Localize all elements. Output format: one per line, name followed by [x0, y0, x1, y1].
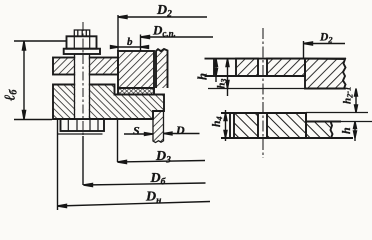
svg-text:S: S [133, 124, 140, 138]
dim l_b line [23, 41, 25, 120]
svg-text:Dн: Dн [145, 190, 161, 207]
bolt shaft hole clearance [75, 54, 89, 119]
dim h right bottom [354, 122, 356, 142]
dim l_b extension bottom [14, 119, 52, 121]
dim Dc.p. extension [140, 35, 142, 52]
dim D2 right [304, 43, 346, 45]
upper flange hub [118, 51, 154, 88]
dim D line right [164, 133, 200, 135]
bolt centerline [82, 22, 84, 150]
dim l_b extension top [14, 40, 67, 42]
dim Dc.p. line [141, 36, 214, 38]
dim Dn extension [57, 119, 59, 210]
svg-text:Dб: Dб [150, 171, 167, 188]
svg-text:D3: D3 [155, 149, 171, 166]
right view dimensions [215, 41, 358, 141]
svg-text:h2-1: h2-1 [342, 86, 355, 104]
gasket [118, 88, 154, 95]
right bottom flange step top edge [306, 121, 341, 123]
svg-text:Dс.п.: Dс.п. [152, 22, 176, 38]
right top flange block bottom edge extended [208, 88, 344, 90]
svg-text:h4: h4 [211, 116, 224, 127]
dimension lines left view [14, 15, 213, 210]
washer [64, 49, 100, 54]
right bottom flange top edge [221, 112, 306, 114]
dim h3 left [227, 59, 229, 96]
right bottom flange bottom edge [221, 137, 353, 139]
dim h4 left bottom [225, 110, 227, 141]
dim h2-1 right [355, 90, 357, 113]
dim b line [110, 46, 149, 48]
dim D3 extension [117, 120, 119, 162]
dim Db extension [82, 136, 84, 185]
dim h left [215, 59, 217, 82]
dim S line left [124, 133, 153, 135]
svg-text:h: h [196, 73, 210, 80]
bolt shaft [75, 54, 90, 119]
dim Dn line [58, 202, 211, 207]
lower flange [53, 85, 164, 120]
svg-text:b: b [127, 36, 133, 48]
upper flange plate [53, 58, 118, 75]
svg-text:D2: D2 [156, 3, 172, 20]
svg-text:D2: D2 [319, 32, 333, 45]
right top flange thin bottom edge [205, 75, 306, 77]
bolt threaded tip [74, 30, 89, 36]
right bottom flange top edge extension right [306, 112, 368, 114]
dim D2 extension [117, 15, 119, 51]
svg-text:D: D [175, 123, 185, 137]
right top flange thin plate [214, 59, 305, 76]
lower pipe wall [153, 111, 164, 143]
dim D3 line [118, 161, 206, 163]
right top flange top edge [205, 58, 347, 60]
right view centerline [262, 28, 264, 158]
svg-text:h3: h3 [217, 79, 229, 89]
right bottom flange [230, 113, 333, 138]
svg-text:h: h [339, 127, 353, 134]
bolt head [58, 119, 104, 134]
svg-text:ℓб: ℓб [3, 89, 20, 101]
dim Db line [84, 183, 206, 185]
nut [67, 36, 97, 48]
right top flange thick block [305, 59, 346, 89]
upper pipe wall [156, 49, 168, 88]
right bottom flange step edge extension [341, 121, 372, 123]
dim D2 line [118, 16, 207, 18]
